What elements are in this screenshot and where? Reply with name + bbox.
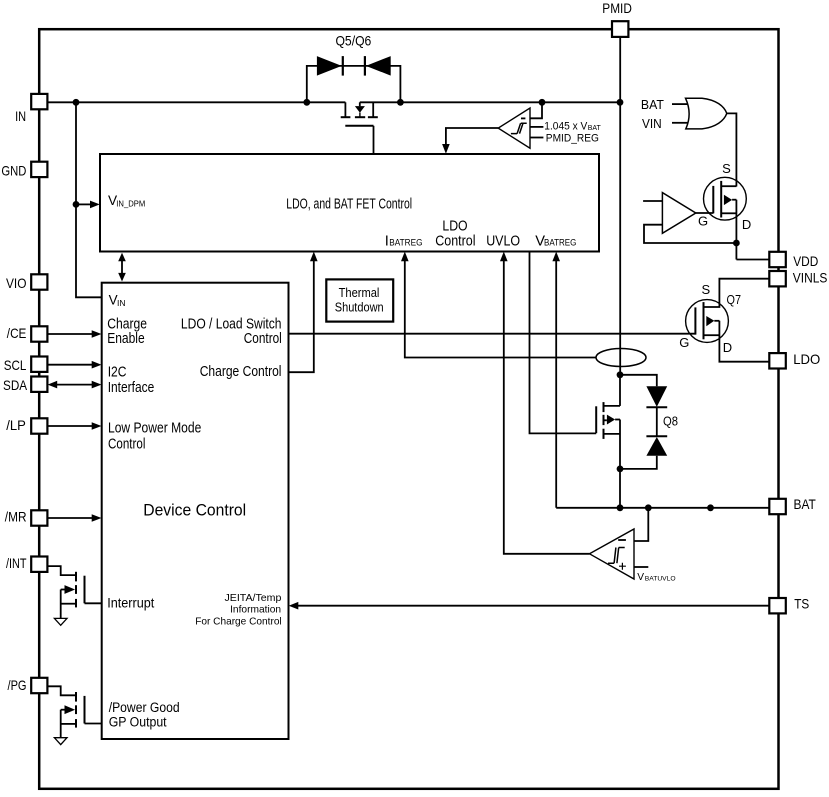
svg-text:TS: TS — [794, 596, 809, 612]
svg-text:G: G — [679, 335, 689, 350]
svg-text:Q5/Q6: Q5/Q6 — [335, 33, 371, 49]
svg-text:VINLS: VINLS — [793, 269, 828, 285]
svg-text:I2C: I2C — [108, 365, 127, 381]
svg-text:Q8: Q8 — [663, 413, 678, 428]
svg-text:Information: Information — [230, 605, 281, 616]
svg-text:Charge Control: Charge Control — [200, 364, 282, 380]
svg-text:/CE: /CE — [7, 325, 27, 341]
svg-text:BAT: BAT — [588, 123, 601, 132]
svg-text:/LP: /LP — [6, 417, 26, 433]
svg-text:VDD: VDD — [793, 253, 818, 269]
svg-text:BATUVLO: BATUVLO — [645, 575, 676, 582]
svg-text:Control: Control — [244, 331, 282, 347]
svg-text:Control: Control — [435, 233, 475, 249]
svg-text:Low Power Mode: Low Power Mode — [108, 421, 201, 437]
svg-text:PMID_REG: PMID_REG — [546, 133, 599, 145]
svg-text:VIO: VIO — [6, 275, 27, 291]
svg-text:IN: IN — [117, 299, 126, 308]
svg-text:UVLO: UVLO — [486, 233, 520, 249]
svg-text:Q7: Q7 — [727, 292, 742, 307]
svg-text:BATREG: BATREG — [544, 238, 576, 249]
svg-text:V: V — [637, 572, 644, 583]
svg-text:BAT: BAT — [641, 97, 664, 112]
svg-text:I: I — [385, 233, 389, 249]
svg-text:/Power Good: /Power Good — [109, 700, 180, 716]
svg-text:Control: Control — [108, 436, 145, 452]
svg-text:LDO, and BAT FET Control: LDO, and BAT FET Control — [286, 196, 412, 213]
svg-text:S: S — [701, 282, 710, 297]
svg-text:/MR: /MR — [5, 508, 27, 524]
svg-text:For Charge Control: For Charge Control — [195, 616, 282, 627]
svg-text:Interface: Interface — [108, 380, 155, 396]
svg-text:LDO / Load Switch: LDO / Load Switch — [181, 316, 282, 332]
svg-text:D: D — [723, 340, 732, 355]
svg-text:Thermal: Thermal — [339, 285, 380, 300]
svg-text:PMID: PMID — [602, 0, 632, 16]
svg-text:Device Control: Device Control — [143, 501, 246, 520]
svg-text:/INT: /INT — [6, 555, 27, 571]
svg-text:Charge: Charge — [107, 316, 147, 332]
svg-text:S: S — [722, 161, 731, 176]
svg-text:Shutdown: Shutdown — [335, 300, 384, 315]
svg-text:/PG: /PG — [8, 677, 27, 693]
svg-text:SDA: SDA — [3, 377, 28, 393]
svg-text:GP Output: GP Output — [109, 715, 167, 731]
svg-text:Interrupt: Interrupt — [107, 595, 154, 611]
svg-text:JEITA/Temp: JEITA/Temp — [225, 593, 282, 604]
svg-text:Enable: Enable — [107, 331, 145, 347]
svg-text:IN_DPM: IN_DPM — [116, 200, 145, 209]
svg-text:1.045 x V: 1.045 x V — [544, 121, 587, 133]
svg-text:IN: IN — [15, 108, 26, 124]
svg-text:BAT: BAT — [794, 496, 817, 512]
svg-text:SCL: SCL — [4, 357, 27, 373]
svg-text:LDO: LDO — [442, 219, 467, 235]
svg-text:VIN: VIN — [642, 116, 662, 131]
svg-text:D: D — [742, 217, 751, 232]
svg-text:BATREG: BATREG — [389, 238, 422, 249]
svg-text:LDO: LDO — [793, 351, 820, 367]
svg-text:G: G — [698, 214, 708, 229]
svg-text:GND: GND — [1, 163, 26, 179]
